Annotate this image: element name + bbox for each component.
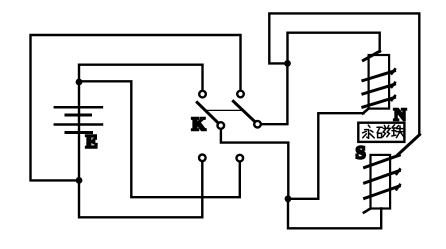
switch terminal middle-left bbox=[218, 122, 225, 129]
coil L1 winding turn 1 end tick bbox=[392, 69, 395, 73]
svg-text:E: E bbox=[86, 132, 98, 152]
wire battery negative down and right up to switch bottom-left terminal bbox=[79, 158, 202, 218]
node battery plus junction dot bbox=[76, 79, 83, 86]
coil L1 winding turn 3 bbox=[363, 98, 395, 108]
coil L1 winding turn 3 end tick bbox=[392, 96, 395, 100]
wire top coil exit left down to junction B bbox=[288, 113, 364, 199]
switch terminal middle-right bbox=[254, 121, 261, 128]
coil L2 winding turn 3 bbox=[365, 186, 400, 198]
coil L2 exit winding tail bbox=[364, 208, 371, 212]
switch K tie bar bbox=[206, 109, 243, 111]
wire switch middle-left terminal down right to junction B bbox=[221, 127, 288, 199]
wire battery plus node right then down to switch bottom-right terminal bbox=[79, 81, 240, 197]
wire battery plus node up and right to switch top-left terminal bbox=[79, 65, 203, 94]
battery E long plate 1 bbox=[55, 106, 102, 109]
node battery minus junction dot bbox=[76, 177, 83, 184]
switch K right blade bbox=[233, 101, 257, 124]
coil L2 winding turn 3 end tick bbox=[397, 185, 400, 190]
coil L1 entry winding tail bbox=[363, 51, 379, 60]
svg-text:S: S bbox=[356, 142, 366, 162]
wire junction B down right and up to bottom coil exit bbox=[288, 199, 381, 229]
wire outer loop entry diagonal into bottom coil bbox=[398, 135, 420, 155]
coil L2 winding turn 2 bbox=[365, 171, 400, 183]
battery E short plate 1 bbox=[66, 114, 91, 117]
permanent magnet text: character yong bbox=[363, 125, 375, 138]
wire switch middle-right terminal right and up to node A bbox=[258, 63, 288, 124]
coil L1 winding turn 2 end tick bbox=[392, 83, 395, 87]
coil L1 winding turn 2 bbox=[363, 84, 395, 94]
wire outer left loop (battery negative to switch top-right terminal) bbox=[31, 35, 241, 180]
switch terminal bottom-right bbox=[237, 155, 244, 162]
svg-text:K: K bbox=[192, 114, 206, 134]
switch terminal bottom-left bbox=[199, 155, 206, 162]
wire node A left then outer right loop to bottom coil entry bbox=[269, 13, 419, 134]
permanent magnet text: character tie bbox=[392, 125, 405, 138]
coil L2 winding turn 1 bbox=[365, 155, 400, 167]
node B junction dot bbox=[285, 195, 292, 202]
switch terminal top-left bbox=[199, 91, 206, 98]
coil L2 core rectangle bbox=[371, 155, 391, 209]
wire node A up and right to top coil entry bbox=[288, 33, 380, 64]
battery E long plate 2 bbox=[55, 123, 102, 126]
wire battery vertical stem bbox=[78, 82, 80, 180]
battery E short plate 2 bbox=[66, 131, 92, 134]
switch K left blade bbox=[197, 103, 221, 126]
coil L2 winding turn 2 end tick bbox=[397, 169, 400, 174]
node A junction dot bbox=[284, 60, 291, 67]
permanent magnet text: character ci bbox=[377, 125, 390, 137]
svg-text:N: N bbox=[394, 105, 407, 124]
switch terminal top-right bbox=[237, 91, 244, 98]
permanent magnet box bbox=[358, 123, 404, 142]
coil L1 winding turn 1 bbox=[363, 71, 395, 81]
coil L1 core rectangle bbox=[369, 55, 390, 109]
coil L1 exit winding tail bbox=[363, 108, 369, 113]
